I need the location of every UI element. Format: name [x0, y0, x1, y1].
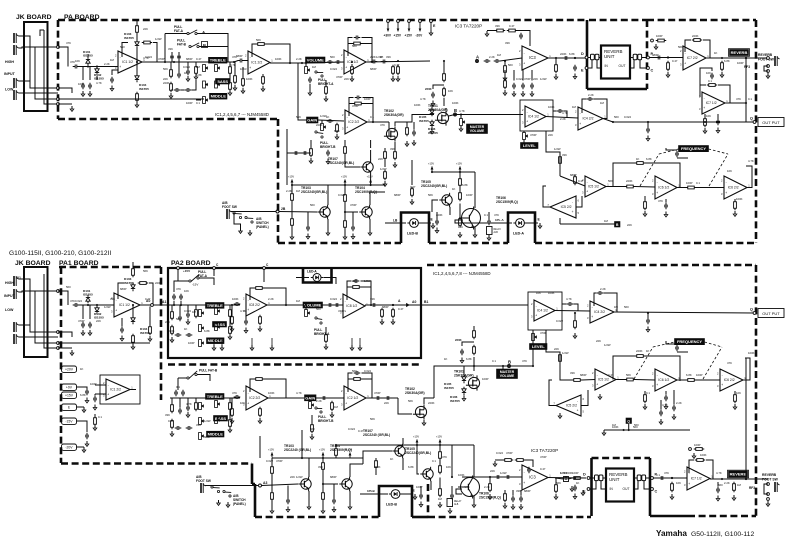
- wire pa entry2: [58, 88, 72, 93]
- wire rev out wire: [630, 57, 633, 59]
- svg-text:33K: 33K: [516, 489, 521, 493]
- resistor R clu b: [335, 447, 338, 458]
- svg-text:4.7K: 4.7K: [562, 111, 568, 115]
- freq dashed horiz2 b: [705, 342, 723, 347]
- wire tone main c: [170, 397, 240, 399]
- svg-text:6.8K: 6.8K: [724, 59, 730, 63]
- wire fb9 r: [361, 287, 371, 305]
- svg-text:1M: 1M: [614, 305, 619, 309]
- capacitor C47p: [110, 77, 114, 84]
- wire coutb: [647, 313, 649, 319]
- svg-text:1/2W: 1/2W: [204, 419, 211, 423]
- svg-text:IC4 2/2: IC4 2/2: [583, 117, 594, 121]
- ground g 73b: [732, 495, 736, 500]
- svg-text:560: 560: [614, 115, 619, 119]
- ground g a1 b: [488, 494, 492, 499]
- ground g tr103: [326, 230, 330, 235]
- transistor TR104 b: [339, 477, 352, 491]
- svg-text:UNIT: UNIT: [609, 477, 620, 482]
- wire rclub: [335, 445, 337, 449]
- wire cfb4b: [363, 98, 374, 104]
- wire ic12b in2: [95, 393, 106, 395]
- capacitor C outb: [646, 318, 650, 325]
- svg-text:56K: 56K: [163, 67, 168, 71]
- svg-text:+: +: [526, 119, 528, 123]
- wire ic3b in wire: [462, 476, 522, 478]
- svg-text:+: +: [247, 308, 249, 312]
- wire tone mb w: [195, 305, 197, 310]
- svg-text:1M: 1M: [600, 101, 605, 105]
- ground g w1: [664, 212, 668, 217]
- wire brb row: [287, 152, 311, 154]
- junction junction: [704, 121, 706, 123]
- wire rab3: [291, 226, 293, 235]
- diode D105 bot: [462, 375, 466, 383]
- capacitor C fat2 c: [181, 390, 185, 397]
- wire ic42 out: [603, 119, 613, 123]
- resistor R 71a: [704, 117, 707, 128]
- resistor R c1: [231, 407, 234, 418]
- svg-text:PA1 BOARD: PA1 BOARD: [59, 260, 99, 267]
- wire tone v1 c: [171, 398, 173, 405]
- svg-text:470P: 470P: [336, 75, 343, 79]
- op-amp IC5 1/2 b: [592, 369, 619, 390]
- node node A: [476, 55, 480, 63]
- svg-text:A3: A3: [263, 481, 267, 485]
- wire pw20: [77, 446, 85, 448]
- ground g mv: [459, 126, 463, 131]
- wire rev out wire2: [642, 57, 647, 59]
- terminal t1: [57, 46, 60, 49]
- svg-text:0.022: 0.022: [496, 451, 503, 455]
- wire ic51b out: [616, 379, 625, 381]
- wire fat top b: [174, 281, 189, 292]
- op-amp IC4 2/2: [575, 107, 606, 130]
- wire rab: [291, 185, 293, 194]
- freq dashed diag 2: [709, 154, 728, 186]
- svg-text:VOLUME: VOLUME: [500, 374, 515, 378]
- junction junction: [628, 429, 630, 431]
- wire tr107b base: [363, 451, 392, 464]
- label BASS: [216, 79, 230, 85]
- potentiometer VR mid b: [199, 340, 204, 347]
- svg-text:2SC2240(GR,BL): 2SC2240(GR,BL): [328, 161, 354, 165]
- label TREBLE: [209, 57, 228, 63]
- wire tone main: [174, 61, 234, 63]
- resistor R t105 b: [439, 450, 442, 461]
- svg-text:LED-A: LED-A: [513, 232, 524, 236]
- wire rc2: [259, 407, 261, 410]
- wire pa2 g 360: [359, 338, 361, 345]
- svg-text:100K: 100K: [736, 197, 743, 201]
- svg-text:470P: 470P: [276, 459, 283, 463]
- capacitor C 71c: [716, 487, 720, 494]
- resistor R b3 b: [259, 315, 262, 326]
- capacitor C ic3t: [519, 33, 523, 40]
- wire cfb11b: [362, 373, 373, 379]
- wire pw3: [94, 414, 96, 418]
- ground g pw1: [85, 398, 89, 403]
- wire ric3o: [555, 58, 557, 65]
- wire ct106 b: [451, 486, 453, 493]
- reverb drive transformer: [591, 54, 595, 60]
- svg-text:22K: 22K: [378, 157, 383, 161]
- svg-text:100K: 100K: [78, 82, 85, 86]
- svg-text:6.8K: 6.8K: [196, 73, 202, 77]
- capacitor C fat2 b: [179, 294, 183, 301]
- wire clip join: [87, 54, 89, 58]
- svg-text:-: -: [726, 181, 727, 185]
- svg-text:560: 560: [352, 369, 357, 373]
- jack A/B jack b: [201, 483, 206, 493]
- resistor R104b: [136, 92, 139, 103]
- wire ic12 in2: [244, 60, 249, 62]
- wire fatb drop: [177, 378, 179, 390]
- ground g relay: [487, 235, 491, 240]
- wire w4b b: [645, 356, 680, 381]
- wire rt106: [459, 204, 461, 219]
- svg-text:LOW: LOW: [5, 308, 14, 312]
- capacitor C 34 b: [332, 498, 336, 505]
- PA1 board right edge: [160, 267, 163, 400]
- ground g tone r: [228, 90, 232, 95]
- label FREQUENCY b: [675, 339, 705, 345]
- wire gain pot: [321, 120, 323, 124]
- wire fb up b: [118, 283, 124, 299]
- ground g q2: [672, 414, 676, 419]
- junction j73: [721, 57, 723, 59]
- svg-text:LED-B: LED-B: [407, 232, 418, 236]
- wire fb2 up: [252, 44, 256, 57]
- wire jk bus1: [30, 47, 58, 88]
- svg-text:-: -: [592, 305, 593, 309]
- svg-text:+: +: [703, 106, 705, 110]
- svg-text:1PL-A: 1PL-A: [495, 218, 505, 222]
- label TREBLE c: [206, 394, 225, 400]
- ground g tr104: [368, 230, 372, 235]
- reverb drive transformer b: [595, 475, 599, 481]
- IC4 1/2 enclosure: [520, 100, 553, 131]
- border step right: [252, 483, 255, 486]
- wire ledb wire: [385, 222, 406, 224]
- potentiometer VR treble: [203, 65, 208, 72]
- svg-text:4.7K: 4.7K: [96, 81, 102, 85]
- capacitor C680 b: [234, 302, 241, 306]
- switch SW br-a: [315, 71, 323, 77]
- svg-text:-: -: [524, 470, 525, 474]
- svg-text:IC8 2/2: IC8 2/2: [249, 303, 260, 307]
- svg-text:100K: 100K: [548, 105, 555, 109]
- svg-text:470P: 470P: [158, 57, 165, 61]
- svg-text:560: 560: [352, 44, 357, 48]
- potentiometer VR level b: [532, 334, 537, 341]
- capacitor C m2 c: [186, 426, 193, 430]
- switch SW fat-b b: [187, 371, 197, 379]
- LED LED-A bot: [311, 274, 323, 282]
- svg-text:-: -: [248, 391, 249, 395]
- diode D104 b: [131, 316, 135, 324]
- wire cluster top2: [432, 171, 475, 173]
- svg-text:IC5 1/2: IC5 1/2: [598, 378, 609, 382]
- svg-text:10K: 10K: [446, 465, 451, 469]
- capacitor C 71b: [716, 119, 720, 126]
- wire tone rb w: [229, 305, 231, 310]
- wire tone m w: [195, 62, 197, 67]
- wire cg wires2 b: [89, 305, 91, 319]
- svg-text:+: +: [586, 189, 588, 193]
- wire ic3b top loop: [495, 459, 503, 461]
- wire ic12b out: [130, 389, 136, 391]
- wire tr103 c: [327, 185, 329, 205]
- ground g o1: [391, 76, 395, 81]
- capacitor C tone m: [186, 69, 190, 76]
- ground g t105 b: [419, 502, 423, 507]
- wire tr103 e: [327, 219, 329, 230]
- wire tone up2 b: [180, 301, 182, 305]
- junction junction: [285, 304, 287, 306]
- svg-text:INPUT: INPUT: [4, 294, 16, 298]
- junction junction: [460, 114, 462, 116]
- svg-text:FAT-B: FAT-B: [177, 42, 187, 46]
- reverb enclosure bottom edge: [650, 515, 688, 518]
- ground g 47b: [692, 453, 696, 458]
- svg-text:1/2W: 1/2W: [376, 55, 383, 59]
- svg-text:+: +: [656, 383, 658, 387]
- wire tr106 base: [455, 220, 490, 223]
- svg-text:A0: A0: [412, 300, 416, 304]
- svg-text:2SK30A(GR): 2SK30A(GR): [384, 113, 404, 117]
- wire fata w2 b: [199, 278, 214, 285]
- ground g pa2 352: [350, 345, 354, 350]
- svg-text:10K: 10K: [240, 401, 245, 405]
- wire footrow: [336, 444, 417, 446]
- svg-text:IC6 2/2: IC6 2/2: [724, 378, 735, 382]
- svg-text:OUT PUT: OUT PUT: [762, 311, 780, 316]
- wire mid wire2: [181, 89, 185, 91]
- svg-text:IS1555: IS1555: [94, 77, 104, 81]
- wire d105 wire: [432, 105, 434, 109]
- capacitor C 34: [351, 225, 355, 232]
- svg-text:+: +: [656, 191, 658, 195]
- label MASTER VOLUME: [467, 124, 488, 134]
- svg-text:10K: 10K: [676, 481, 681, 485]
- potentiometer VR b2 b: [215, 324, 220, 331]
- wire jack2 tip b: [19, 291, 59, 292]
- junction j73b: [721, 478, 723, 480]
- ground g pa2 272: [270, 345, 274, 350]
- wire cfb3: [348, 38, 353, 44]
- node node B (bot): [508, 360, 512, 368]
- svg-text:0.47: 0.47: [358, 429, 364, 433]
- ground g relay b: [448, 508, 452, 513]
- svg-text:2.2K: 2.2K: [286, 189, 292, 193]
- wire cic12b: [94, 394, 96, 396]
- FET TR102: [413, 404, 427, 419]
- wire rw6b: [644, 391, 646, 395]
- wire w3b: [635, 379, 655, 382]
- svg-text:-: -: [524, 51, 525, 55]
- power board right dashed edge: [755, 20, 758, 243]
- svg-text:0.022: 0.022: [330, 67, 337, 71]
- potentiometer VR bass: [203, 81, 208, 88]
- wire bsq wire2: [559, 218, 561, 224]
- svg-text:IC1 2/2: IC1 2/2: [251, 61, 262, 65]
- capacitor C brb1: [293, 151, 300, 155]
- svg-text:2SC1509(R,Q): 2SC1509(R,Q): [479, 496, 501, 500]
- svg-text:LED-A: LED-A: [307, 270, 317, 274]
- ground g pwE: [82, 407, 86, 412]
- wire leda wire: [490, 222, 512, 224]
- svg-text:220K: 220K: [316, 123, 323, 127]
- relay ALB b: [447, 499, 453, 507]
- ground g b3 b: [258, 326, 262, 331]
- capacitor C 72: [656, 56, 663, 60]
- svg-text:220K: 220K: [436, 213, 443, 217]
- wire ic12b in1: [95, 384, 106, 386]
- resistor R ab1: [291, 192, 294, 203]
- svg-text:10K: 10K: [458, 225, 463, 229]
- wire jk bus1 b: [30, 291, 58, 332]
- junction junction: [473, 365, 475, 367]
- svg-text:100K: 100K: [275, 57, 282, 61]
- switch SW ab1: [233, 212, 242, 219]
- resistor R fb72: [692, 39, 703, 42]
- wire tr105b e: [430, 481, 432, 490]
- svg-text:4.7K: 4.7K: [459, 109, 465, 113]
- resistor R fb9: [351, 286, 362, 289]
- capacitor C m2 b: [186, 333, 193, 337]
- capacitor C t1 b: [178, 315, 182, 322]
- svg-text:680P: 680P: [524, 489, 531, 493]
- op-amp IC3: [519, 46, 551, 70]
- svg-text:1K: 1K: [636, 157, 640, 161]
- svg-text:-: -: [657, 373, 658, 377]
- svg-text:47K: 47K: [664, 471, 669, 475]
- capacitor C680: [238, 59, 245, 63]
- resistor R 220k: [443, 72, 446, 83]
- potentiometer VR t2: [215, 65, 220, 72]
- svg-text:0.47: 0.47: [578, 179, 584, 183]
- resistor R w5 b: [686, 379, 697, 382]
- potentiometer VR bass c: [199, 418, 204, 425]
- ground g ic3t: [485, 31, 489, 36]
- wire tr107 c: [370, 150, 372, 160]
- ground g ab3: [290, 234, 294, 239]
- PA2 board outline: [168, 268, 421, 358]
- wire ic71 out: [725, 102, 746, 104]
- wire fatB wire2: [199, 46, 228, 48]
- svg-text:33K: 33K: [570, 371, 575, 375]
- wire ic22 out: [367, 121, 389, 123]
- svg-text:-: -: [248, 298, 249, 302]
- ground g tone rb: [228, 334, 232, 339]
- wire sw wire b: [764, 484, 768, 494]
- ground g ic3o b: [554, 494, 558, 499]
- svg-text:1K: 1K: [80, 367, 84, 371]
- svg-text:0.47: 0.47: [394, 63, 400, 67]
- terminal t3: [57, 98, 60, 101]
- terminal power term +30V: [387, 20, 390, 23]
- svg-text:IC1 1/2: IC1 1/2: [122, 60, 133, 64]
- resistor R c2: [259, 407, 262, 418]
- wire ic12 out: [270, 62, 306, 64]
- wire tone up2: [178, 52, 180, 62]
- svg-text:IC8 1/2: IC8 1/2: [346, 304, 357, 308]
- wire ic3b out: [548, 477, 586, 480]
- potentiometer VR volume: [305, 67, 310, 74]
- wire rev c wire2: [640, 60, 647, 68]
- supply arrow: [439, 440, 441, 445]
- resistor R w6 b: [644, 393, 647, 404]
- diode D104: [135, 74, 139, 82]
- junction junction: [289, 62, 291, 64]
- junction jo: [397, 60, 399, 62]
- resistor R fb2: [256, 43, 267, 46]
- ground g gr2: [412, 140, 416, 145]
- svg-text:REVERB: REVERB: [730, 472, 747, 477]
- ground g w6: [643, 211, 647, 216]
- svg-text:100P: 100P: [466, 193, 473, 197]
- svg-text:-: -: [346, 391, 347, 395]
- freq dashed horiz b: [653, 342, 675, 347]
- svg-text:+: +: [684, 61, 686, 65]
- svg-text:FOOT SW: FOOT SW: [222, 205, 237, 209]
- wire c71t: [700, 68, 712, 97]
- svg-text:0.1: 0.1: [696, 181, 700, 185]
- svg-text:100P: 100P: [572, 471, 579, 475]
- svg-text:-: -: [722, 373, 723, 377]
- wire rev e wire b: [590, 481, 596, 489]
- capacitor C v1: [327, 60, 334, 64]
- wire jack1 tip: [19, 36, 31, 47]
- svg-text:IC4 1/2: IC4 1/2: [528, 115, 539, 119]
- label MIDDLE b: [207, 338, 225, 344]
- resistor R g2: [336, 123, 339, 134]
- LED LED-B bot: [389, 490, 402, 499]
- wire fb11 up: [348, 379, 352, 392]
- wire tone up: [171, 52, 173, 62]
- capacitor C fb4: [355, 96, 362, 100]
- resistor R fb71: [707, 84, 718, 87]
- svg-text:+15V: +15V: [428, 162, 434, 166]
- wire vol drop b: [305, 308, 307, 310]
- capacitor C g1: [327, 119, 334, 123]
- resistor R-fb1: [142, 41, 153, 44]
- junction junction: [451, 476, 453, 478]
- svg-text:6.8K: 6.8K: [408, 465, 414, 469]
- wire ic3 out: [548, 57, 586, 59]
- svg-text:4.7K: 4.7K: [240, 309, 246, 313]
- svg-text:100K: 100K: [548, 291, 555, 295]
- svg-text:+: +: [688, 482, 690, 486]
- wire pw1: [77, 387, 88, 389]
- ground g2: [88, 91, 92, 96]
- REVERB UNIT box b: [606, 469, 634, 502]
- wire rev e wire: [588, 60, 592, 68]
- svg-text:TREBLE: TREBLE: [210, 58, 226, 63]
- wire r34 bb: [322, 458, 324, 463]
- wire fb8 r: [264, 288, 286, 305]
- switch SW ab2: [245, 216, 253, 223]
- wire rt105b b: [439, 459, 441, 466]
- op-amp IC6 1/2 b: [652, 369, 680, 391]
- label VOLUME b: [303, 302, 323, 308]
- wire ic1 out b: [140, 304, 150, 306]
- svg-text:1M: 1M: [334, 405, 339, 409]
- wire fatb w2: [197, 375, 210, 382]
- svg-text:0.022: 0.022: [330, 297, 337, 301]
- potentiometer VR gain b: [309, 402, 314, 409]
